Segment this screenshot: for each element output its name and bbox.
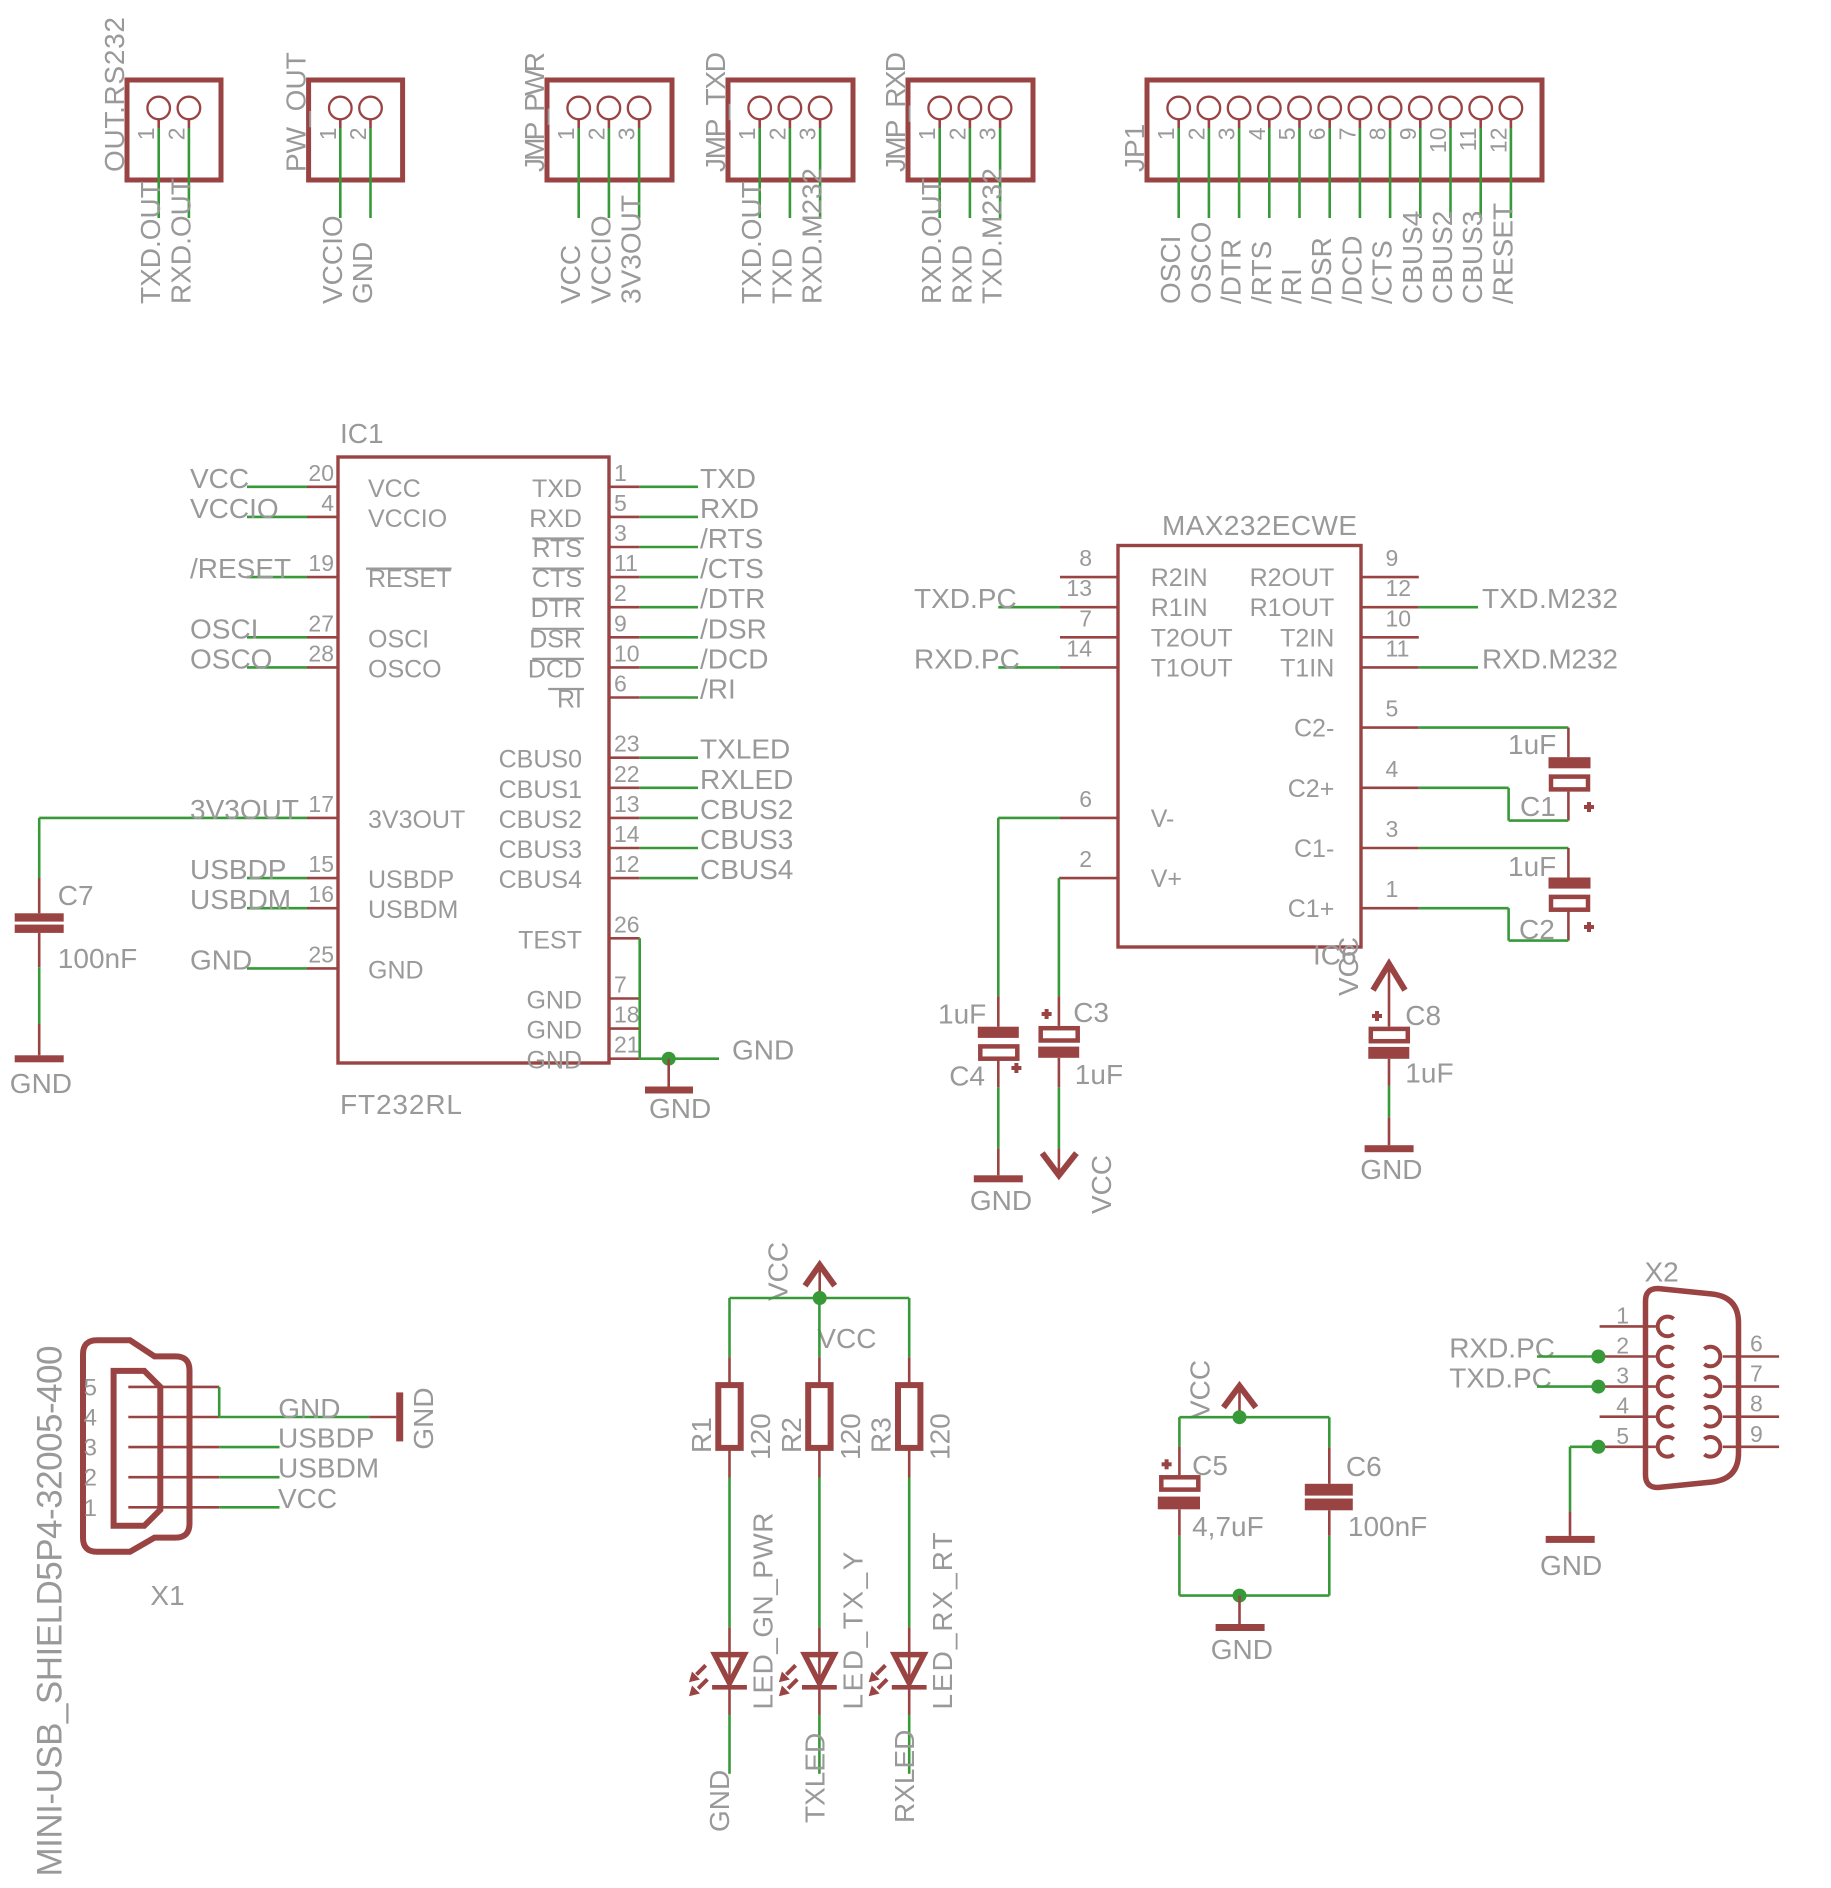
svg-text:JP1: JP1 — [1119, 124, 1150, 172]
svg-text:7: 7 — [1079, 605, 1092, 631]
svg-text:14: 14 — [1066, 635, 1092, 661]
wire VCC rail to R3 — [908, 1298, 911, 1357]
svg-text:4: 4 — [321, 490, 334, 516]
ground symbol below C8 — [1388, 1117, 1391, 1145]
connector JP1 pin 2 pad circle — [1198, 97, 1221, 120]
wire net TXD at IC1 pin 1 — [640, 485, 698, 488]
IC1 pin name RI overline — [548, 688, 584, 690]
svg-text:4: 4 — [84, 1405, 97, 1432]
X2 pin 4 line — [1600, 1415, 1656, 1418]
svg-text:GND: GND — [1211, 1634, 1273, 1665]
IC1 pin 19 (RESET) stub — [307, 576, 338, 579]
svg-text:100nF: 100nF — [1348, 1511, 1427, 1542]
svg-text:5: 5 — [1274, 128, 1300, 141]
wire net VCCIO at IC1 pin 4 — [247, 516, 307, 519]
IC1 pin 26 (TEST) stub — [609, 937, 640, 940]
IC1 pin 2 (DTR) stub — [609, 606, 640, 609]
resistor R2 body — [808, 1385, 830, 1448]
svg-text:27: 27 — [308, 610, 334, 636]
IC U1 FT232RL box — [338, 457, 609, 1063]
svg-text:CBUS3: CBUS3 — [1457, 211, 1488, 304]
svg-text:CBUS0: CBUS0 — [499, 746, 582, 774]
svg-text:C4: C4 — [949, 1061, 985, 1092]
svg-text:GND: GND — [526, 1047, 582, 1075]
wire net RXD at IC1 pin 5 — [640, 516, 698, 519]
resistor R3 body — [898, 1385, 920, 1448]
svg-text:100nF: 100nF — [58, 943, 137, 974]
capacitor C8 bottom lead — [1388, 1059, 1391, 1086]
wire net RXD.M232 from J4 pin 3 — [819, 128, 822, 218]
svg-text:GND: GND — [347, 242, 378, 304]
connector JP1 pin 10 pad circle — [1439, 97, 1462, 120]
wire net OSCO at IC1 pin 28 — [247, 666, 307, 669]
IC6 pin 12 (R1OUT) stub — [1361, 606, 1419, 609]
connector J5 box — [908, 80, 1033, 180]
wire net /RTS at IC1 pin 3 — [640, 546, 698, 549]
LED LED2 emission arrows — [786, 1665, 795, 1674]
IC1 pin 10 (DCD) stub — [609, 666, 640, 669]
svg-text:23: 23 — [614, 731, 640, 757]
svg-text:RXLED: RXLED — [889, 1730, 920, 1823]
X2 pin 1 socket arc — [1658, 1317, 1674, 1337]
svg-text:2: 2 — [1183, 128, 1209, 141]
svg-text:4: 4 — [1244, 127, 1270, 140]
wire V+ net: IC6 pin2 to C3 — [1059, 877, 1060, 880]
svg-text:VCC: VCC — [190, 463, 249, 494]
svg-text:R1IN: R1IN — [1151, 594, 1208, 622]
connector JP1 pin 6 pad circle — [1318, 97, 1341, 120]
wire LED1 to GND — [728, 1715, 731, 1774]
wire C2- to capacitor C1 top — [1419, 726, 1569, 729]
svg-text:28: 28 — [308, 640, 334, 666]
connector JP1 pin 6 stub — [1328, 119, 1331, 128]
wire VCC rail — [730, 1297, 910, 1300]
IC6 pin 9 (R2OUT) stub — [1361, 576, 1419, 579]
connector JP1 pin 1 stub — [1177, 119, 1180, 128]
svg-text:3V3OUT: 3V3OUT — [368, 806, 465, 834]
svg-text:GND: GND — [278, 1393, 340, 1424]
svg-text:TXD: TXD — [700, 463, 756, 494]
svg-text:RXD: RXD — [946, 245, 977, 304]
LED LED3 triangle — [894, 1655, 924, 1684]
wire net 3V3OUT to C7 — [39, 817, 307, 820]
svg-text:4: 4 — [1616, 1393, 1629, 1419]
wire net /DSR from JP1 pin 6 — [1328, 128, 1331, 218]
wire net CBUS4 at IC1 pin 12 — [640, 877, 698, 880]
svg-text:2: 2 — [1616, 1333, 1629, 1359]
wire net OSCI from JP1 pin 1 — [1177, 128, 1180, 218]
svg-text:5: 5 — [84, 1374, 97, 1401]
wire net CBUS2 from JP1 pin 10 — [1449, 128, 1452, 218]
svg-text:C3: C3 — [1073, 997, 1109, 1028]
svg-text:1: 1 — [1386, 876, 1399, 902]
LED LED1 cathode bar — [712, 1685, 747, 1690]
IC1 pin name RESET overline — [366, 567, 452, 569]
connector J3 pin 2 stub — [608, 119, 611, 128]
IC6 pin 6 (V-) stub — [1060, 817, 1118, 820]
capacitor C6 bottom lead — [1328, 1510, 1331, 1536]
svg-text:10: 10 — [614, 640, 640, 666]
connector J2 pin 1 pad circle — [329, 97, 352, 120]
svg-text:OUT.RS232: OUT.RS232 — [99, 17, 130, 172]
X2 pin 2 socket arc — [1658, 1347, 1674, 1367]
ground symbol below X2 — [1569, 1512, 1572, 1536]
IC6 pin 5 (C2-) stub — [1361, 726, 1419, 729]
wire net USBDP at IC1 pin 15 — [247, 877, 307, 880]
resistor R3 top lead — [908, 1357, 911, 1385]
svg-text:OSCI: OSCI — [368, 625, 429, 653]
wire net RXD from J5 pin 2 — [969, 128, 972, 218]
svg-text:/DTR: /DTR — [700, 583, 765, 614]
svg-text:1uF: 1uF — [1508, 729, 1556, 760]
connector J1 pin 1 pad circle — [147, 97, 170, 120]
LED LED3 bottom lead — [908, 1689, 911, 1715]
svg-text:T2IN: T2IN — [1280, 624, 1334, 652]
svg-text:/DSR: /DSR — [700, 613, 767, 644]
svg-text:VCC: VCC — [1333, 937, 1364, 996]
wire V- net: IC6 pin6 to C4 — [998, 817, 1060, 820]
IC1 pin name DCD overline — [532, 658, 584, 660]
wire net USBDM at IC1 pin 16 — [247, 907, 307, 910]
svg-text:3: 3 — [614, 128, 640, 141]
wire rail to C6 — [1328, 1417, 1331, 1447]
svg-text:TXD.OUT: TXD.OUT — [135, 181, 166, 304]
capacitor C5 bottom lead — [1178, 1509, 1181, 1536]
LED LED3 emission arrows — [876, 1665, 885, 1674]
junction top rail — [1233, 1410, 1247, 1424]
svg-text:25: 25 — [308, 941, 334, 967]
IC6 pin 10 (T2IN) stub — [1361, 636, 1419, 639]
svg-text:USBDP: USBDP — [368, 866, 454, 894]
wire net GND from J2 pin 2 — [369, 128, 372, 218]
svg-text:C1: C1 — [1520, 791, 1556, 822]
svg-text:1: 1 — [84, 1495, 97, 1522]
svg-text:OSCO: OSCO — [368, 655, 442, 683]
svg-text:JMP_RXD: JMP_RXD — [880, 52, 911, 172]
capacitor C5 top lead — [1178, 1447, 1181, 1475]
svg-text:2: 2 — [163, 128, 189, 141]
connector JP1 pin 8 stub — [1389, 119, 1392, 128]
connector J5 pin 1 pad circle — [928, 97, 951, 120]
X2 pin 7 line — [1723, 1385, 1779, 1388]
X1 pin 2 line — [128, 1476, 219, 1479]
X2 pin 5 socket arc — [1658, 1437, 1674, 1457]
svg-text:GND: GND — [10, 1068, 72, 1099]
connector JP1 pin 9 stub — [1419, 119, 1422, 128]
svg-text:1: 1 — [1153, 128, 1179, 141]
junction bottom rail — [1233, 1589, 1247, 1603]
wire rail to C5 — [1178, 1417, 1181, 1446]
IC IC6 MAX232ECWE box — [1118, 546, 1361, 948]
LED LED2 triangle — [805, 1655, 835, 1684]
wire net TXD from J4 pin 2 — [789, 128, 792, 218]
wire net /DSR at IC1 pin 9 — [640, 636, 698, 639]
X2 pin 8 line — [1723, 1415, 1779, 1418]
IC1 pin 16 (USBDM) stub — [307, 907, 338, 910]
svg-text:5: 5 — [614, 490, 627, 516]
capacitor C1 bottom lead — [1567, 792, 1570, 821]
svg-text:3: 3 — [1214, 128, 1240, 141]
wire USBDM from X1 pin2 — [219, 1476, 279, 1479]
wire R2 to LED2 — [818, 1478, 821, 1628]
svg-text:2: 2 — [345, 128, 371, 141]
LED LED2 cathode bar — [802, 1685, 837, 1690]
resistor R2 top lead — [818, 1357, 821, 1385]
svg-text:10: 10 — [1425, 128, 1451, 154]
connector X2 DB9 outline — [1646, 1289, 1739, 1488]
svg-text:GND: GND — [408, 1387, 439, 1449]
svg-text:GND: GND — [1540, 1550, 1602, 1581]
svg-text:8: 8 — [1365, 128, 1391, 141]
capacitor C5 bottom plate — [1158, 1497, 1200, 1510]
svg-text:3V3OUT: 3V3OUT — [616, 195, 647, 304]
connector J2 pin 2 stub — [369, 119, 372, 128]
svg-text:1: 1 — [614, 460, 627, 486]
LED LED1 emission arrows — [697, 1665, 706, 1674]
svg-text:RXD.OUT: RXD.OUT — [165, 178, 196, 304]
ground symbol right of X1 (rotated) — [369, 1416, 396, 1419]
IC1 pin 7 (GND) stub — [609, 997, 640, 1000]
wire C6 to bottom rail — [1328, 1536, 1331, 1596]
svg-text:2: 2 — [84, 1465, 97, 1492]
svg-text:7: 7 — [1334, 128, 1360, 141]
wire net TXD.OUT from J1 pin 1 — [157, 128, 160, 218]
connector J1 pin 2 pad circle — [178, 97, 201, 120]
svg-text:CBUS2: CBUS2 — [700, 794, 793, 825]
capacitor C6 plates — [1305, 1484, 1353, 1496]
LED LED2 bottom lead — [818, 1689, 821, 1715]
connector JP1 pin 11 stub — [1479, 119, 1482, 128]
svg-text:USBDM: USBDM — [368, 896, 458, 924]
wire net /DTR from JP1 pin 3 — [1238, 128, 1241, 218]
wire net VCC at IC1 pin 20 — [247, 485, 307, 488]
wire net TXD.M232 from J5 pin 3 — [999, 128, 1002, 218]
LED LED1 triangle — [715, 1655, 745, 1684]
svg-text:VCC: VCC — [1185, 1360, 1216, 1419]
svg-text:/RI: /RI — [1276, 268, 1307, 304]
svg-text:GND: GND — [732, 1035, 794, 1066]
svg-text:/DTR: /DTR — [1216, 239, 1247, 304]
capacitor C1 top lead — [1567, 728, 1570, 758]
connector J5 pin 2 stub — [969, 119, 972, 128]
svg-text:RXD: RXD — [700, 493, 759, 524]
wire net GND at IC1 pin 25 — [247, 967, 307, 970]
resistor R1 top lead — [728, 1357, 731, 1385]
svg-text:/RI: /RI — [700, 674, 736, 705]
wire net OSCO from JP1 pin 2 — [1208, 128, 1211, 218]
svg-text:13: 13 — [1066, 575, 1092, 601]
wire net /DCD at IC1 pin 10 — [640, 666, 698, 669]
IC1 pin 15 (USBDP) stub — [307, 877, 338, 880]
wire net VCC from J3 pin 1 — [577, 128, 580, 218]
wire joining IC1 pins 26,7,18,21 — [638, 938, 641, 1058]
svg-text:/DCD: /DCD — [1336, 236, 1367, 304]
svg-text:3: 3 — [614, 520, 627, 546]
svg-text:11: 11 — [1386, 635, 1410, 661]
svg-text:2: 2 — [583, 128, 609, 141]
wire C5 to bottom rail — [1178, 1536, 1181, 1596]
capacitor C8 bottom plate — [1368, 1047, 1409, 1059]
svg-text:RXD.PC: RXD.PC — [914, 643, 1020, 674]
svg-text:8: 8 — [1079, 545, 1092, 571]
wire net TXD.M232 at IC6 pin 12 — [1419, 606, 1478, 609]
svg-text:1: 1 — [734, 128, 760, 141]
svg-text:X1: X1 — [150, 1580, 184, 1611]
resistor R1 body — [718, 1385, 740, 1448]
svg-text:14: 14 — [614, 821, 640, 847]
svg-text:VCCIO: VCCIO — [368, 505, 447, 533]
connector J5 pin 2 pad circle — [959, 97, 982, 120]
wire net TXLED at IC1 pin 23 — [640, 756, 698, 759]
svg-text:7: 7 — [614, 972, 627, 998]
X2 pin 7 socket arc — [1704, 1377, 1720, 1397]
wire net VCCIO from J3 pin 2 — [608, 128, 611, 218]
svg-text:19: 19 — [308, 550, 334, 576]
connector J2 pin 2 pad circle — [359, 97, 382, 120]
svg-text:CBUS4: CBUS4 — [1397, 211, 1428, 304]
IC1 pin name DTR overline — [532, 598, 584, 600]
svg-text:GND: GND — [526, 1017, 582, 1045]
svg-text:IC1: IC1 — [340, 418, 384, 449]
wire net RXD.OUT from J1 pin 2 — [188, 128, 191, 218]
svg-text:LED_RX_RT: LED_RX_RT — [927, 1533, 958, 1710]
svg-text:/RESET: /RESET — [190, 553, 291, 584]
resistor R3 bottom lead — [908, 1448, 911, 1478]
wire net /DCD from JP1 pin 7 — [1359, 128, 1362, 218]
wire net RXD.M232 at IC6 pin 11 — [1419, 666, 1478, 669]
svg-text:1uF: 1uF — [938, 999, 986, 1030]
connector J1 pin 1 stub — [157, 119, 160, 128]
IC1 pin 11 (CTS) stub — [609, 576, 640, 579]
capacitor C3 plus sign — [1042, 1012, 1052, 1016]
junction X2 pin5 — [1591, 1440, 1605, 1454]
ground symbol below C7 — [38, 1024, 41, 1055]
X2 pin 1 line — [1600, 1325, 1656, 1328]
IC6 pin 2 (V+) stub — [1060, 877, 1118, 880]
connector J2 pin 1 stub — [339, 119, 342, 128]
svg-text:16: 16 — [308, 881, 334, 907]
LED LED1 bottom lead — [728, 1689, 731, 1715]
svg-text:18: 18 — [614, 1002, 640, 1028]
svg-text:RXD.PC: RXD.PC — [1449, 1333, 1555, 1364]
svg-text:21: 21 — [614, 1032, 640, 1058]
svg-text:VCC: VCC — [1086, 1155, 1117, 1214]
X1 pin 5 line — [128, 1386, 219, 1389]
wire C1- to capacitor C2 top — [1419, 847, 1569, 850]
X1 pin 1 line — [128, 1506, 219, 1509]
connector J4 pin 2 stub — [789, 119, 792, 128]
svg-text:VCCIO: VCCIO — [317, 215, 348, 304]
connector JP1 pin 9 pad circle — [1409, 97, 1432, 120]
connector J3 pin 2 pad circle — [598, 97, 621, 120]
wire C4 to GND — [997, 1087, 1000, 1148]
svg-text:22: 22 — [614, 761, 640, 787]
svg-text:JMP_TXD: JMP_TXD — [700, 52, 731, 172]
capacitor C2 plus sign — [1584, 925, 1594, 929]
IC1 pin 12 (CBUS4) stub — [609, 877, 640, 880]
X2 pin 9 line — [1723, 1446, 1779, 1449]
capacitor C8 top plate (hollow) — [1371, 1029, 1408, 1041]
svg-text:T1IN: T1IN — [1280, 654, 1334, 682]
connector JP1 pin 5 stub — [1298, 119, 1301, 128]
svg-text:GND: GND — [704, 1770, 735, 1832]
capacitor C3 top lead — [1058, 996, 1061, 1026]
X2 pin 9 socket arc — [1704, 1437, 1720, 1457]
IC6 pin 7 (T2OUT) stub — [1060, 636, 1118, 639]
wire net /RI from JP1 pin 5 — [1298, 128, 1301, 218]
IC1 pin 27 (OSCI) stub — [307, 636, 338, 639]
IC6 pin 4 (C2+) stub — [1361, 786, 1419, 789]
IC1 pin 17 (3V3OUT) stub — [307, 817, 338, 820]
svg-text:9: 9 — [1386, 545, 1399, 571]
IC1 pin name RTS overline — [532, 537, 584, 539]
svg-text:PW_OUT: PW_OUT — [281, 52, 312, 172]
connector JP1 pin 1 pad circle — [1167, 97, 1190, 120]
X2 pin 3 socket arc — [1658, 1377, 1674, 1397]
svg-text:1uF: 1uF — [1405, 1058, 1453, 1089]
connector JP1 pin 10 stub — [1449, 119, 1452, 128]
svg-text:/RTS: /RTS — [1246, 241, 1277, 304]
svg-text:/CTS: /CTS — [700, 553, 764, 584]
wire R1 to LED1 — [728, 1478, 731, 1628]
capacitor C7 plates — [15, 913, 64, 921]
IC1 pin 3 (RTS) stub — [609, 546, 640, 549]
svg-text:CBUS4: CBUS4 — [700, 854, 793, 885]
wire net TXD.OUT from J4 pin 1 — [758, 128, 761, 218]
svg-text:VCC: VCC — [278, 1483, 337, 1514]
LED LED3 cathode bar — [892, 1685, 927, 1690]
capacitor C1 bottom plate (hollow) — [1551, 777, 1588, 790]
svg-text:C2-: C2- — [1294, 715, 1334, 743]
svg-text:GND: GND — [970, 1185, 1032, 1216]
svg-text:2: 2 — [1079, 846, 1092, 872]
svg-text:120: 120 — [835, 1413, 866, 1460]
IC6 pin 1 (C1+) stub — [1361, 907, 1419, 910]
junction X2 pin2 — [1591, 1350, 1605, 1364]
resistor R2 bottom lead — [818, 1448, 821, 1478]
capacitor C3 bottom plate — [1038, 1047, 1079, 1058]
wire net /RTS from JP1 pin 4 — [1268, 128, 1271, 218]
IC1 pin 14 (CBUS3) stub — [609, 847, 640, 850]
wire net /RESET at IC1 pin 19 — [247, 576, 307, 579]
svg-text:4: 4 — [1386, 756, 1399, 782]
wire 3V3OUT vertical to C7 — [38, 818, 41, 878]
capacitor C7 top lead — [38, 878, 41, 913]
svg-text:2: 2 — [944, 128, 970, 141]
connector X1 mini-USB outer shell — [83, 1340, 190, 1551]
wire net CBUS2 at IC1 pin 13 — [640, 817, 698, 820]
svg-text:VCCIO: VCCIO — [585, 215, 616, 304]
svg-text:OSCI: OSCI — [190, 613, 258, 644]
capacitor C2 bottom lead — [1567, 910, 1570, 941]
svg-text:TEST: TEST — [518, 926, 582, 954]
svg-text:LED_TX_Y: LED_TX_Y — [837, 1551, 868, 1709]
capacitor C4 top lead — [997, 996, 1000, 1026]
wire GND net from pin 21 to junction — [640, 1057, 719, 1060]
IC1 pin 23 (CBUS0) stub — [609, 756, 640, 759]
svg-text:R2OUT: R2OUT — [1250, 564, 1335, 592]
svg-text:TXD.PC: TXD.PC — [914, 583, 1017, 614]
junction on VCC rail — [813, 1291, 827, 1305]
capacitor C5 plus sign — [1162, 1462, 1172, 1466]
IC1 pin 13 (CBUS2) stub — [609, 817, 640, 820]
svg-text:CBUS1: CBUS1 — [499, 776, 582, 804]
svg-text:GND: GND — [526, 987, 582, 1015]
X2 pin 3 line — [1600, 1385, 1656, 1388]
capacitor C1 plus sign — [1584, 805, 1594, 809]
wire C3 to VCC — [1058, 1087, 1061, 1148]
svg-text:OSCO: OSCO — [1185, 222, 1216, 304]
